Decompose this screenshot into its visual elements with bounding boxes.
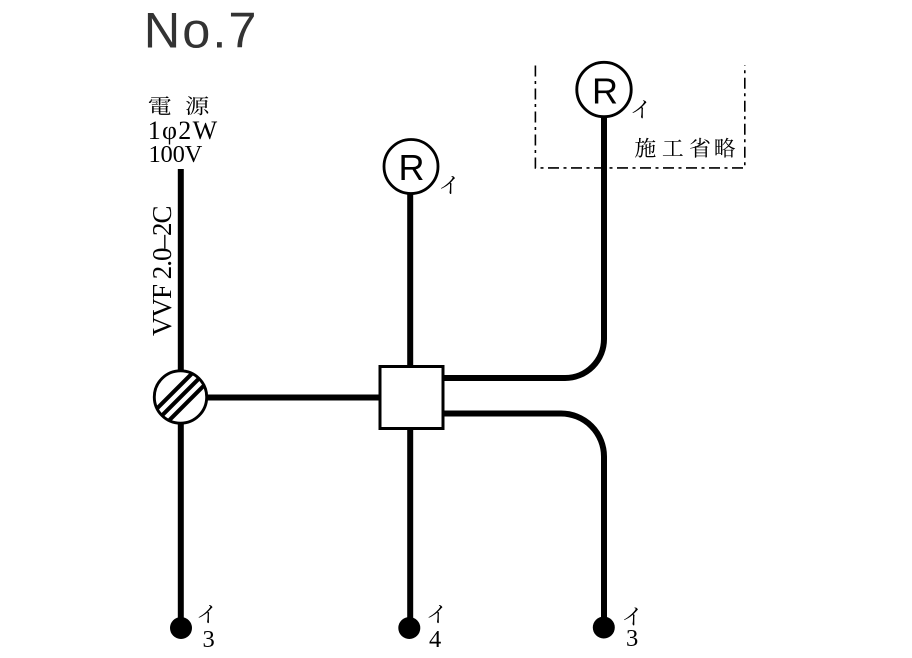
svg-text:3: 3 — [203, 626, 215, 653]
lamp R (top right, omitted section) — [577, 62, 631, 116]
label: power source 電源 — [149, 96, 208, 115]
lamp R (middle) — [384, 140, 438, 194]
outlet box (square) — [380, 367, 443, 429]
lamp terminal dot (right) — [593, 617, 615, 639]
wire: joint box down to lamp terminal (left drop) — [178, 424, 184, 619]
label: switch イ (left terminal) — [199, 605, 213, 623]
label: switch イ (right terminal) — [624, 607, 638, 625]
svg-text:No.7: No.7 — [144, 2, 259, 59]
junction box JB (VVF joint box, hatched circle) — [153, 370, 207, 424]
svg-text:4: 4 — [429, 626, 441, 653]
construction-omitted boundary (chain-dashed box) — [535, 65, 744, 168]
svg-text:100V: 100V — [149, 141, 203, 168]
lamp terminal dot (left) — [170, 617, 192, 639]
svg-text:R: R — [592, 70, 618, 111]
label: switch イ for middle lamp — [441, 176, 455, 194]
wire: joint box to outlet box (horizontal) — [207, 395, 381, 401]
svg-text:3: 3 — [626, 625, 638, 652]
wire: outlet box down to lamp terminal (middle drop) — [407, 429, 413, 618]
wire: outlet box up to lamp R middle — [407, 193, 413, 366]
svg-text:R: R — [399, 147, 425, 188]
lamp terminal dot (middle) — [398, 617, 420, 639]
wire: outlet box to top-right lamp (curved) — [443, 116, 604, 378]
label: switch イ (middle terminal) — [429, 605, 443, 623]
label: 施工省略 (construction omitted) — [635, 138, 735, 158]
svg-text:VVF 2.0–2C: VVF 2.0–2C — [147, 206, 177, 336]
label: switch イ for top-right lamp — [633, 100, 647, 118]
wire: outlet box to bottom-right lamp terminal (curved drop) — [443, 414, 604, 618]
wire: power feed vertical (source to joint box) — [178, 169, 184, 373]
